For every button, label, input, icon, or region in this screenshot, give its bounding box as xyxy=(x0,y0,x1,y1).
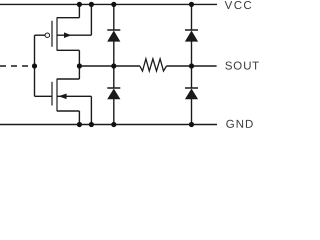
wire: D2 to GND xyxy=(113,99,115,125)
wire: output node to resistor xyxy=(79,65,139,67)
wire: D4 to GND xyxy=(191,99,193,125)
junction: SOUT / D1 D2 xyxy=(111,63,116,68)
wire: Q2 source to GND xyxy=(78,111,80,125)
junction: GND / Q2 body xyxy=(89,122,94,127)
dashed gate input wire xyxy=(0,65,33,67)
junction: VCC / D3 xyxy=(189,2,194,7)
transistor Q2 (NMOS) xyxy=(35,79,92,112)
VCC rail wire xyxy=(0,3,217,5)
net label SOUT xyxy=(225,61,259,69)
transistor Q1 (PMOS) xyxy=(35,17,92,50)
GND rail wire xyxy=(0,124,217,126)
diode D2 (clamp to GND) xyxy=(107,88,120,99)
junction: GND / D4 xyxy=(189,122,194,127)
junction: GND / D2 xyxy=(111,122,116,127)
junction: output node xyxy=(77,63,82,68)
wire: Q1 source to VCC xyxy=(78,4,80,17)
wire: gate column xyxy=(34,35,36,96)
junction: SOUT / D3 D4 xyxy=(189,63,194,68)
diode D4 (clamp to GND) xyxy=(185,88,198,99)
junction: GND / Q2 source xyxy=(77,122,82,127)
wire: D1 to SOUT line xyxy=(113,42,115,67)
resistor R1 xyxy=(140,59,167,71)
junction: VCC / Q1 source xyxy=(77,2,82,7)
wire: Q1 body to VCC xyxy=(90,4,92,35)
wire: D3 to SOUT line xyxy=(191,42,193,67)
wire: VCC to D1 xyxy=(113,4,115,30)
net label VCC xyxy=(225,1,252,9)
wire: Q2 body to GND xyxy=(90,96,92,124)
junction: VCC / Q1 body xyxy=(89,2,94,7)
wire: Q2 drain to output node xyxy=(78,66,80,79)
diode D3 (clamp to VCC) xyxy=(185,30,198,42)
wire: SOUT line to D2 xyxy=(113,66,115,88)
junction: gate input node xyxy=(32,63,37,68)
wire: Q1 drain to output node xyxy=(78,50,80,66)
junction: VCC / D1 xyxy=(111,2,116,7)
wire: resistor to SOUT pin xyxy=(166,65,216,67)
wire: SOUT line to D4 xyxy=(191,66,193,88)
net label GND xyxy=(226,120,252,128)
diode D1 (clamp to VCC) xyxy=(107,30,120,42)
wire: VCC to D3 xyxy=(191,4,193,30)
